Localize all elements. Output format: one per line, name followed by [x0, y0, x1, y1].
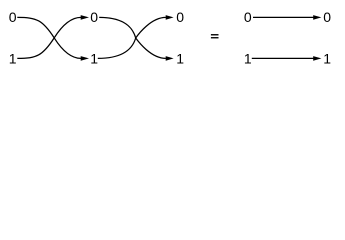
svg-text:0: 0 — [90, 9, 98, 25]
svg-text:1: 1 — [176, 50, 184, 66]
svg-text:1: 1 — [90, 50, 98, 66]
node 1 (identity right) — [323, 50, 331, 66]
arrowhead into right 1 — [166, 56, 174, 61]
arrowhead into identity right 1 — [313, 56, 321, 61]
arrowhead into middle 1 — [81, 56, 89, 61]
node 1 (middle column) — [90, 50, 98, 66]
svg-text:1: 1 — [9, 50, 17, 66]
wire: identity arrow 0 to 0 — [253, 16, 314, 18]
svg-text:0: 0 — [244, 9, 252, 25]
wire: identity arrow 1 to 1 — [252, 57, 314, 59]
node 0 (right column of composition) — [176, 9, 184, 25]
svg-text:0: 0 — [9, 9, 17, 25]
node 1 (right column of composition) — [176, 50, 184, 66]
svg-text:0: 0 — [323, 9, 331, 25]
wire: first swap, arrow from left 0 down to middle 1 — [17, 17, 81, 58]
arrowhead into right 0 — [166, 15, 174, 20]
svg-text:0: 0 — [176, 9, 184, 25]
arrowhead into identity right 0 — [313, 15, 321, 20]
arrowhead into middle 0 — [81, 15, 89, 20]
svg-text:1: 1 — [323, 50, 331, 66]
node 0 (identity left) — [244, 9, 252, 25]
node 1 (identity left) — [244, 50, 252, 66]
equals sign — [211, 34, 219, 38]
wire: first swap, arrow from left 1 up to middle 0 — [17, 17, 81, 58]
node 0 (left column, first swap input) — [9, 9, 17, 25]
node 0 (middle column) — [90, 9, 98, 25]
node 0 (identity right) — [323, 9, 331, 25]
wire: second swap, arrow from middle 1 up to right 0 — [98, 17, 166, 58]
wire: second swap, arrow from middle 0 down to right 1 — [99, 17, 166, 58]
svg-text:1: 1 — [244, 50, 252, 66]
node 1 (left column, first swap input) — [9, 50, 17, 66]
